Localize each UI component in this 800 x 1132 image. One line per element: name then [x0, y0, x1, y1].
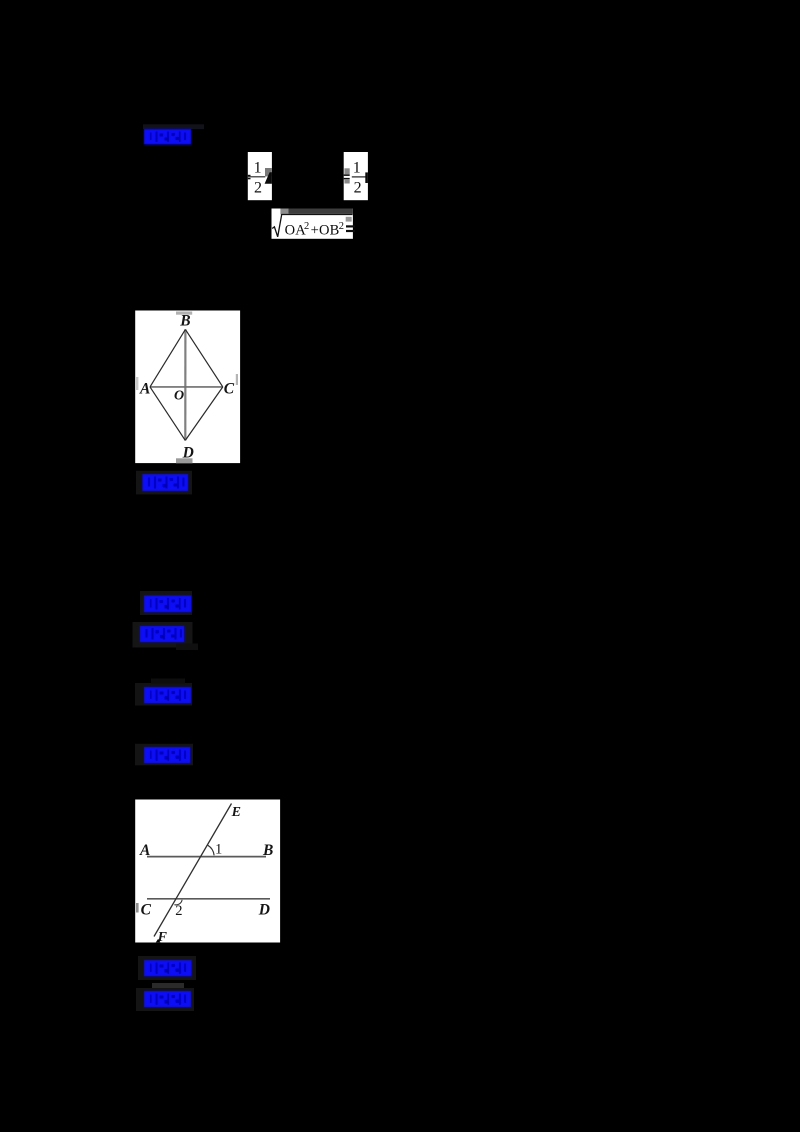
svg-text:1: 1 — [353, 160, 361, 177]
line CD — [147, 898, 270, 900]
side CD — [185, 387, 223, 441]
blue label 2 — [136, 471, 192, 495]
formula patch: =1/2 (first fraction) — [248, 152, 272, 200]
svg-text:E: E — [231, 805, 241, 820]
gray ghost above label 8 — [152, 983, 184, 991]
faint ticks at edges — [136, 377, 138, 390]
svg-text:1: 1 — [254, 160, 262, 177]
parallel lines diagram white box — [135, 800, 280, 945]
svg-text:A: A — [139, 380, 150, 397]
transversal EF — [154, 804, 232, 937]
svg-text:A: A — [139, 842, 150, 859]
blue label 8 — [136, 988, 194, 1011]
svg-text:B: B — [262, 842, 273, 859]
gray patch bottom (near D) — [176, 458, 193, 463]
faint tick left of C — [136, 903, 139, 913]
svg-text:2: 2 — [175, 903, 182, 919]
svg-text:2: 2 — [304, 221, 309, 232]
diagonal AC (horizontal, gray) — [150, 386, 223, 388]
svg-text:2: 2 — [354, 180, 362, 197]
angle 2 arc — [174, 900, 182, 905]
line AB — [147, 856, 266, 858]
blue label 6 — [135, 744, 193, 766]
blue label 5 — [135, 683, 192, 706]
svg-text:F: F — [157, 930, 168, 945]
svg-text:C: C — [224, 380, 235, 397]
blue label 7 — [138, 956, 196, 980]
blue highlighted label 1 (solid CJK marker) — [144, 129, 191, 145]
svg-text:+OB: +OB — [311, 223, 340, 239]
svg-text:B: B — [179, 312, 190, 329]
gray patch top (near B) — [176, 312, 192, 315]
svg-text:2: 2 — [254, 180, 262, 197]
svg-text:D: D — [182, 445, 194, 462]
side BC — [185, 329, 222, 387]
side AB — [150, 329, 185, 387]
svg-text:1: 1 — [215, 841, 222, 857]
svg-text:O: O — [174, 389, 184, 404]
formula patch: =1/2 (second fraction) — [344, 152, 368, 200]
svg-text:D: D — [258, 901, 270, 918]
side DA — [150, 387, 185, 441]
svg-text:C: C — [141, 901, 152, 918]
angle 1 arc — [208, 845, 214, 855]
rhombus diagram white box — [135, 311, 240, 464]
svg-text:2: 2 — [339, 221, 344, 232]
diagonal BD (vertical, gray) — [184, 329, 186, 440]
black blot under F — [156, 939, 161, 943]
formula patch: sqrt(OA^2+OB^2)= — [272, 209, 356, 239]
faint ghost strip above label 1 — [143, 124, 204, 129]
blue label 3 — [140, 591, 192, 615]
blue label 4 — [133, 622, 193, 648]
